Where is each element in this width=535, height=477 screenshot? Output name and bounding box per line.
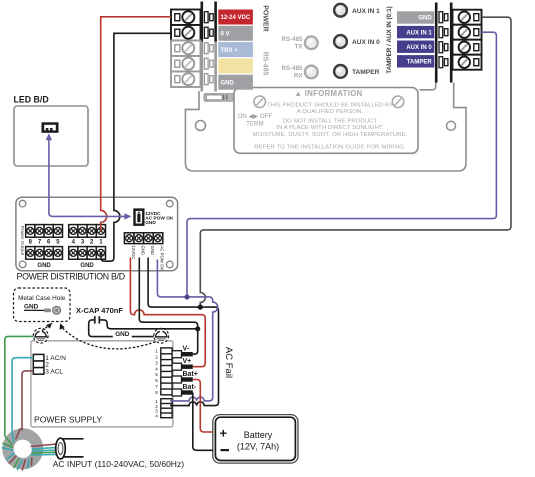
LED AUX IN 1	[334, 4, 347, 17]
wire black GND3 to AC fail gnd	[148, 258, 218, 406]
svg-text:AC INPUT (110-240VAC, 50/60Hz): AC INPUT (110-240VAC, 50/60Hz)	[53, 459, 185, 469]
aux terminal rotated labels	[131, 246, 165, 271]
right terminal block row1 GND	[453, 10, 482, 25]
svg-text:RS-485: RS-485	[282, 65, 304, 72]
terminal row1 group 8-5	[26, 225, 63, 238]
information text	[252, 89, 407, 151]
wire black GND2 to V- junction	[139, 258, 197, 329]
reader mounting hole left	[196, 121, 206, 131]
12VDC input connector	[133, 208, 144, 226]
svg-text:Bat-: Bat-	[183, 384, 197, 391]
svg-text:RS-485: RS-485	[282, 36, 304, 43]
AC cable end	[56, 438, 84, 459]
right connector header bars	[435, 3, 453, 83]
left terminal block row1 12-24VDC	[171, 10, 201, 26]
left terminal block row3 TRX+	[171, 41, 201, 57]
svg-text:DO NOT INSTALL THE PRODUCT: DO NOT INSTALL THE PRODUCT	[283, 119, 378, 125]
svg-text:TX: TX	[295, 44, 304, 51]
svg-text:IN A PLACE WITH DIRECT SUNLIGH: IN A PLACE WITH DIRECT SUNLIGHT,	[276, 125, 384, 131]
svg-text:AUX IN 0: AUX IN 0	[352, 39, 380, 46]
svg-text:GND: GND	[221, 80, 235, 86]
LED B/D connector	[42, 122, 59, 133]
svg-text:AUX IN 0: AUX IN 0	[406, 45, 432, 51]
svg-text:GND: GND	[418, 16, 432, 22]
metal case GND screw	[24, 304, 61, 315]
LED RS-485 TX	[305, 36, 318, 49]
svg-text:TRX +: TRX +	[221, 48, 239, 54]
svg-text:ON ◀▶ OFF: ON ◀▶ OFF	[238, 113, 273, 120]
left terminal block row2 0V	[171, 25, 201, 41]
right terminal block row3 AUX IN 0	[453, 40, 482, 55]
psu dashed screw right	[154, 328, 169, 343]
svg-text:AC Fail: AC Fail	[223, 347, 234, 378]
svg-text:GND: GND	[37, 263, 51, 269]
right terminal block row2 AUX IN 1	[453, 25, 482, 40]
ON OFF TERM label	[238, 113, 273, 128]
svg-text:▲ INFORMATION: ▲ INFORMATION	[294, 89, 362, 98]
metal case hole box	[14, 288, 71, 322]
LED RS-485 RX	[305, 66, 318, 79]
LED B/D box	[14, 106, 88, 166]
wire purple AC POW OK to AC fail	[157, 260, 217, 401]
wire green earth	[5, 336, 34, 436]
svg-text:2: 2	[155, 355, 158, 360]
svg-text:3 ACL: 3 ACL	[45, 368, 63, 375]
psu AC connector	[33, 354, 44, 374]
wire purple AUX IN 1 down right side	[187, 32, 496, 297]
reader board outline	[185, 83, 466, 172]
terminal row2 GND group right	[69, 247, 106, 260]
toroid	[2, 428, 43, 469]
toroid strands	[2, 429, 57, 471]
right terminal block row4 TAMPER	[453, 55, 482, 70]
svg-text:POWER SUPPLY: POWER SUPPLY	[34, 415, 102, 425]
distribution corner markers	[19, 200, 173, 267]
left terminal block row5 GND	[171, 72, 201, 88]
left connector header bars	[201, 2, 217, 92]
svg-text:Power Output: Power Output	[19, 226, 25, 256]
svg-text:Battery: Battery	[244, 430, 273, 440]
svg-text:3: 3	[155, 361, 158, 366]
svg-text:6: 6	[155, 378, 158, 383]
psu AC labels	[45, 355, 66, 375]
svg-text:TAMPER: TAMPER	[352, 69, 380, 76]
svg-text:POWER: POWER	[262, 5, 269, 31]
lug V-	[172, 351, 193, 358]
svg-text:THIS PRODUCT SHOULD BE INSTALL: THIS PRODUCT SHOULD BE INSTALLED BY	[267, 103, 393, 109]
svg-text:GND: GND	[145, 220, 156, 226]
svg-text:V-: V-	[183, 346, 190, 353]
LED AUX IN 0	[334, 35, 347, 48]
svg-text:12-24 VDC: 12-24 VDC	[221, 15, 251, 21]
svg-text:GND: GND	[115, 331, 130, 338]
svg-text:Metal Case Hole: Metal Case Hole	[18, 295, 66, 302]
left connector header pattern	[204, 12, 213, 85]
svg-text:GND: GND	[80, 263, 94, 269]
svg-text:TAMPER / AUX IN (0:1): TAMPER / AUX IN (0:1)	[386, 6, 393, 74]
junction dot purple	[184, 294, 189, 299]
numbers 8 7 6 5	[29, 239, 61, 245]
dashed arrow right to case	[60, 323, 156, 349]
svg-text:MOISTURE, DUSTY, SOOT, OR HIGH: MOISTURE, DUSTY, SOOT, OR HIGH TEMPERATU…	[252, 132, 407, 138]
svg-text:TAMPER: TAMPER	[407, 60, 433, 66]
reader info panel	[234, 88, 418, 154]
svg-text:REFER TO THE INSTALLATION GUID: REFER TO THE INSTALLATION GUIDE FOR WIRI…	[254, 145, 406, 151]
left terminal block row4	[171, 56, 201, 72]
svg-text:RX: RX	[294, 73, 303, 80]
svg-text:A QUALIFIED PERSON.: A QUALIFIED PERSON.	[297, 109, 364, 115]
junction dot xcap	[195, 326, 200, 331]
wire black Bat- to battery	[193, 393, 213, 451]
reader mounting hole right	[447, 121, 456, 130]
terminal row2 GND group left	[26, 247, 63, 260]
psu terminal strip lower	[161, 399, 172, 418]
svg-text:V+: V+	[183, 358, 192, 365]
svg-text:0 V: 0 V	[221, 32, 230, 38]
12VDC connector labels	[145, 211, 174, 226]
lug V+	[172, 363, 193, 370]
terminal row1 group 4-1	[69, 225, 106, 238]
svg-text:TERM: TERM	[246, 120, 264, 127]
svg-text:RS-485: RS-485	[262, 52, 269, 76]
numbers 4 3 2 1	[72, 239, 104, 245]
psu dashed screw left	[33, 328, 48, 343]
svg-text:+: +	[220, 426, 228, 441]
dashed arrow left to case	[42, 323, 52, 331]
wire red 12VDC to V+	[130, 258, 205, 367]
wire cyan AC/N	[12, 358, 33, 433]
svg-text:AC POW OK: AC POW OK	[160, 246, 165, 271]
info panel screw left	[254, 96, 266, 108]
wire black 0V to distribution GND terminal 1	[101, 33, 171, 261]
svg-text:LED B/D: LED B/D	[14, 95, 49, 105]
lug Bat+	[172, 376, 193, 383]
wire maroon ACL	[21, 371, 34, 430]
svg-text:12VDC: 12VDC	[131, 246, 136, 260]
svg-text:Bat+: Bat+	[183, 371, 198, 378]
wire red Bat+ to battery	[193, 380, 213, 433]
battery polarity	[220, 426, 230, 452]
aux terminal row	[124, 233, 162, 244]
wire black junction to V-	[193, 329, 198, 354]
svg-text:GND: GND	[150, 246, 155, 256]
info panel screw right	[392, 96, 404, 108]
svg-text:1: 1	[155, 349, 158, 354]
left color table	[218, 10, 253, 90]
svg-text:5: 5	[155, 372, 158, 377]
svg-text:(12V, 7Ah): (12V, 7Ah)	[237, 442, 279, 452]
psu strip numbers 1-8	[155, 349, 158, 395]
LED TAMPER	[334, 65, 347, 78]
lug Bat-	[172, 389, 193, 396]
psu terminal strip upper	[161, 348, 172, 395]
psu lower numbers 1-4	[155, 399, 158, 418]
svg-text:GND: GND	[141, 246, 146, 256]
wire purple LED cable with arrows	[46, 133, 132, 219]
junction dot black gnd	[198, 305, 203, 310]
battery text	[237, 430, 279, 452]
svg-text:GND: GND	[24, 304, 39, 311]
TERM switch	[204, 94, 233, 102]
svg-text:4: 4	[155, 366, 158, 371]
svg-text:AUX IN 1: AUX IN 1	[352, 8, 380, 15]
wire gray reader GND down right side	[200, 17, 511, 307]
svg-text:8: 8	[155, 390, 158, 395]
wire red 12-24VDC to distribution terminal 1	[101, 17, 171, 231]
right connector header pattern	[439, 12, 448, 68]
power distribution board outline	[16, 197, 178, 270]
right color table	[397, 11, 434, 67]
svg-text:4: 4	[155, 413, 158, 418]
svg-text:POWER DISTRIBUTION B/D: POWER DISTRIBUTION B/D	[17, 272, 125, 282]
X-CAP capacitor	[89, 316, 198, 336]
svg-text:AUX IN 1: AUX IN 1	[406, 30, 432, 36]
battery box	[213, 415, 298, 464]
svg-text:X-CAP 470nF: X-CAP 470nF	[76, 306, 123, 315]
svg-text:7: 7	[155, 384, 158, 389]
power supply box	[31, 341, 173, 427]
